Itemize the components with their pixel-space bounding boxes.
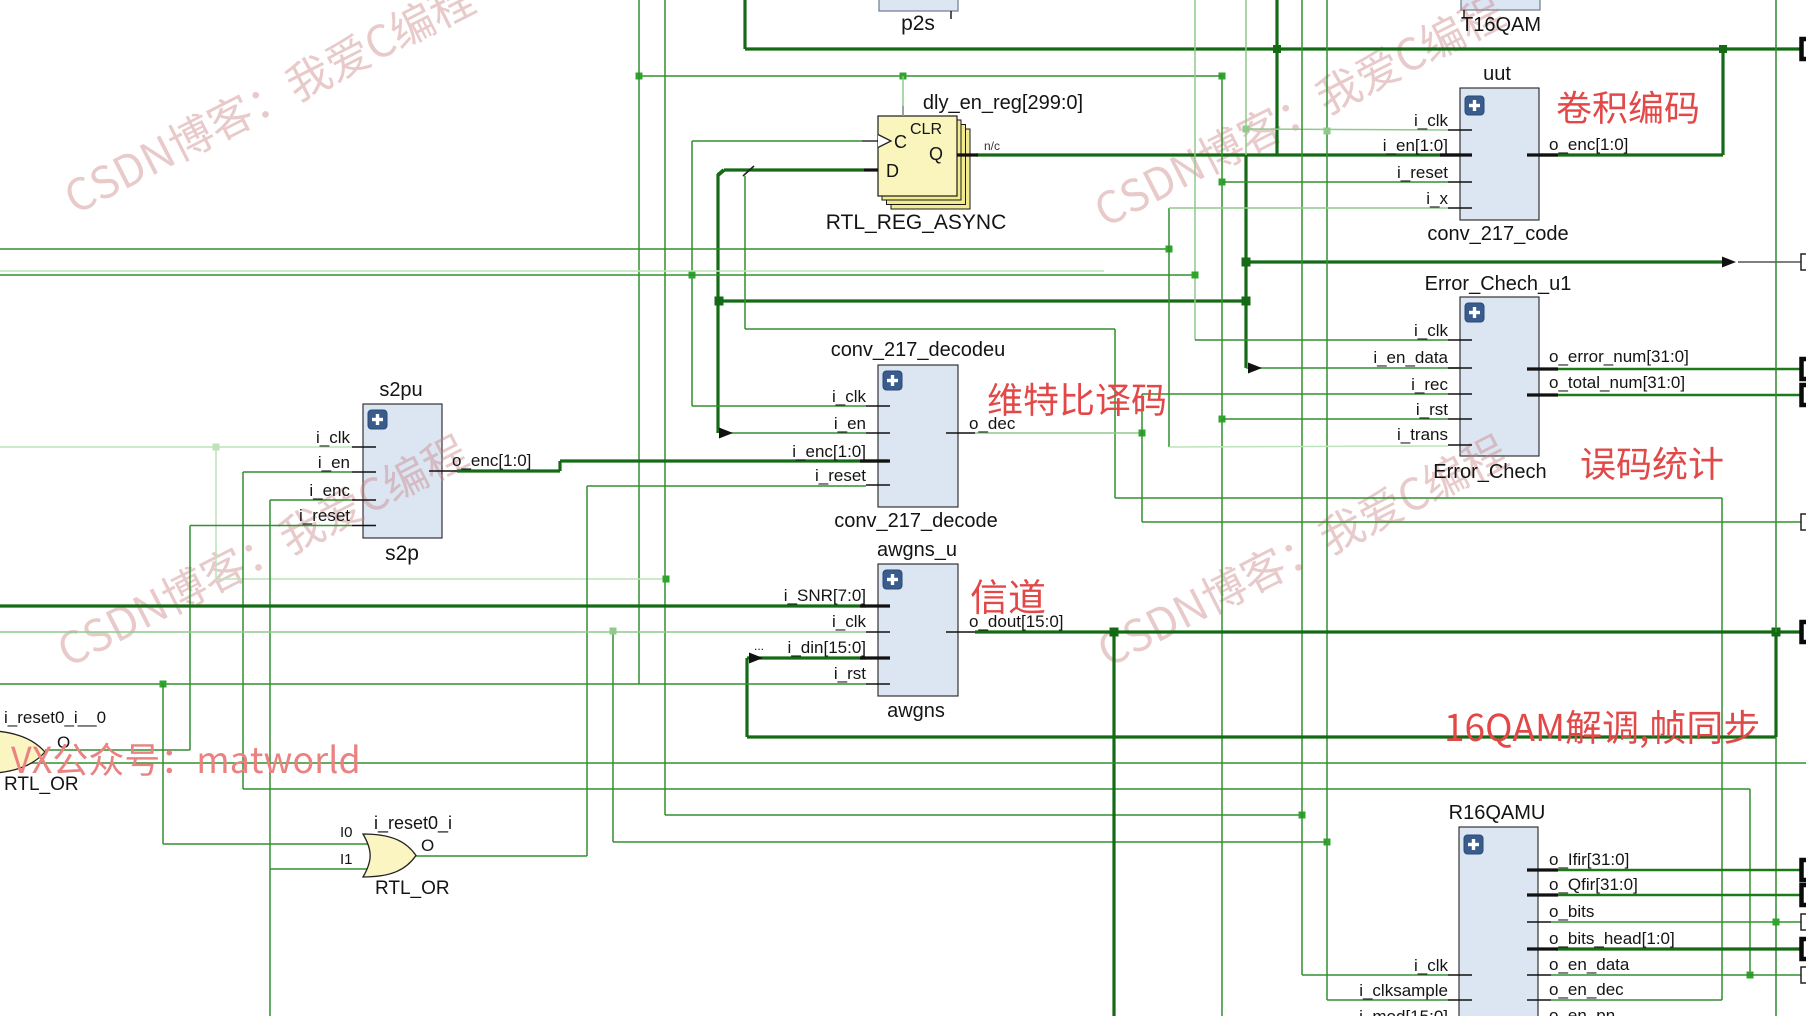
svg-text:CLR: CLR — [910, 121, 942, 138]
svg-text:o_en_dec: o_en_dec — [1549, 980, 1624, 999]
svg-text:awgns: awgns — [887, 700, 945, 722]
junction x1246 y301 — [1242, 297, 1251, 306]
arrow conv i_en — [719, 428, 733, 439]
wire conv i_en riser x718 — [716, 301, 719, 433]
wire o_enc jog x560 — [558, 461, 561, 471]
wire y842 horizontal — [613, 841, 1327, 843]
wire Error i_trans y447 — [1169, 446, 1448, 447]
svg-text:i_clk: i_clk — [1414, 111, 1449, 130]
register C stub — [862, 140, 878, 142]
svg-text:conv_217_decodeu: conv_217_decodeu — [831, 339, 1006, 361]
wire awgns i_rst y684 — [0, 683, 866, 685]
arrow i_din — [749, 653, 763, 664]
uut o_enc stub — [1527, 153, 1558, 156]
junction y76 x639 — [636, 73, 643, 80]
svg-text:n/c: n/c — [984, 139, 1000, 153]
ripper tick on D wire — [743, 166, 754, 176]
svg-text:i_enc: i_enc — [309, 481, 350, 500]
wire x1776 thin lower — [1775, 737, 1777, 1016]
junction x718 y301 — [715, 297, 724, 306]
wire awgns i_clk y632 — [0, 631, 866, 633]
svg-text:I0: I0 — [340, 824, 353, 841]
svg-text:i_clk: i_clk — [316, 428, 351, 447]
svg-text:dly_en_reg[299:0]: dly_en_reg[299:0] — [923, 92, 1083, 114]
wire y271 horizontal — [0, 270, 1104, 272]
R16QAMU o_bits_head stub — [1527, 947, 1558, 950]
port bracket o_en_data — [1801, 967, 1806, 983]
awgns i_din stub — [860, 656, 890, 659]
port bracket o_Ifir — [1802, 860, 1806, 880]
wire x613 vertical — [612, 631, 614, 842]
port bracket o_bits_head — [1802, 939, 1806, 959]
junction x613 y631 — [610, 628, 617, 635]
wire R16QAMU i_clksample y1000 — [1327, 999, 1448, 1001]
wire o_error_num y369 — [1556, 368, 1801, 370]
svg-text:s2pu: s2pu — [379, 379, 422, 401]
junction x1246 y129 — [1243, 126, 1250, 133]
wire x1776 thin upper — [1775, 0, 1777, 632]
junction y579 x666 — [663, 576, 670, 583]
wire uut i_clk y129 — [1246, 129, 1448, 130]
wire x243 vertical — [242, 472, 244, 789]
wire x1169 vertical — [1168, 208, 1170, 447]
junction x1222 y76 — [1219, 73, 1226, 80]
wire y262 tail to port — [1738, 261, 1801, 263]
wire o_dout tail to port — [1776, 630, 1801, 633]
junction y76 x903 — [900, 73, 907, 80]
wire x1114 vertical — [1112, 632, 1115, 1016]
wire s2p i_reset y525 — [190, 525, 352, 527]
awgns i_SNR stub — [860, 604, 890, 607]
or-gate RTL_OR i_reset0_i — [363, 834, 416, 877]
svg-text:D: D — [886, 161, 899, 181]
module s2p body — [363, 404, 442, 538]
svg-text:R16QAMU: R16QAMU — [1449, 802, 1546, 824]
wire o_Ifir y870 — [1556, 869, 1801, 871]
svg-text:o_dec: o_dec — [969, 414, 1016, 433]
wire o_en_dec y1000 — [1551, 999, 1722, 1001]
icon R16QAMU — [1464, 835, 1483, 854]
svg-text:i_rec: i_rec — [1411, 375, 1448, 394]
svg-text:o_dout[15:0]: o_dout[15:0] — [969, 612, 1064, 631]
wire reg Q to uut i_en y155 — [976, 153, 1460, 156]
arrow y262 — [1722, 257, 1736, 268]
svg-text:o_Ifir[31:0]: o_Ifir[31:0] — [1549, 850, 1629, 869]
register top gray stub — [902, 106, 904, 116]
wire Q branch down x1246 thick — [1244, 155, 1247, 368]
wire s2p i_enc y500 — [270, 499, 352, 501]
conv_217_decode input stubs — [866, 405, 890, 407]
svg-text:i_clk: i_clk — [1414, 956, 1449, 975]
wire y815 horizontal — [665, 814, 1302, 816]
R16QAMU o_en stubs — [1527, 974, 1551, 976]
wire s2p i_clk y447 — [0, 446, 352, 448]
svg-text:T16QAM: T16QAM — [1461, 14, 1541, 36]
svg-text:o_total_num[31:0]: o_total_num[31:0] — [1549, 373, 1685, 392]
p2s bottom stub — [950, 11, 952, 19]
wire y301 horizontal — [718, 299, 1246, 302]
svg-text:i_din[15:0]: i_din[15:0] — [788, 638, 866, 657]
junction x1222 y419 — [1219, 416, 1226, 423]
icon uut — [1465, 96, 1484, 115]
wire R16QAMU i_clk y975 — [1302, 974, 1448, 976]
annotation xindao — [971, 579, 1044, 614]
wire y522 horizontal — [1142, 521, 1801, 523]
junction o_dec x1142 — [1139, 430, 1146, 437]
s2p input stubs — [352, 446, 376, 448]
wire o_enc y461 to conv i_enc — [560, 459, 888, 462]
Error o_error_num stub — [1527, 367, 1558, 370]
wire x1195 vertical — [1194, 0, 1196, 340]
port bracket y522 — [1801, 514, 1806, 530]
wire OR2 out y856 — [416, 855, 587, 857]
uut input stubs — [1448, 129, 1472, 131]
wire y789 horizontal — [243, 788, 1750, 790]
module T16QAM (partial) — [1461, 0, 1540, 10]
svg-text:s2p: s2p — [385, 542, 419, 565]
wire conv o_dec y433 — [975, 432, 1142, 434]
port bracket o_dout — [1802, 622, 1806, 642]
svg-text:o_bits_head[1:0]: o_bits_head[1:0] — [1549, 929, 1675, 948]
wire OR1 output y750 — [45, 749, 190, 751]
junction x1327 y131 — [1324, 128, 1331, 135]
svg-text:o_bits: o_bits — [1549, 902, 1594, 921]
wire y262 to output arrow — [1246, 260, 1722, 263]
svg-text:i_en_data: i_en_data — [1373, 348, 1448, 367]
svg-text:o_error_num[31:0]: o_error_num[31:0] — [1549, 347, 1689, 366]
icon s2p — [368, 410, 387, 429]
register clock wedge — [878, 135, 891, 148]
watermark CSDN 3 — [53, 430, 471, 670]
wire o_en_data y975 — [1551, 974, 1801, 976]
junction o_dout x1776 — [1772, 628, 1781, 637]
wire i_SNR y606 — [0, 604, 866, 607]
svg-text:i_rst: i_rst — [834, 664, 866, 683]
wire x1302 vertical — [1301, 0, 1303, 975]
svg-text:conv_217_code: conv_217_code — [1427, 223, 1568, 245]
uut i_en stub — [1440, 153, 1472, 156]
wire x1327 vertical — [1326, 0, 1328, 1000]
watermark CSDN 2 — [1090, 0, 1508, 230]
icon conv_217_decode — [883, 371, 902, 390]
svg-text:i_reset: i_reset — [815, 466, 866, 485]
wire Error i_clk y340 — [1195, 339, 1448, 341]
wire uut o_enc to riser — [1539, 153, 1723, 156]
wire Error i_en_data — [1246, 367, 1460, 369]
port bracket o_total_num — [1802, 385, 1806, 405]
svg-text:i_reset0_i: i_reset0_i — [374, 813, 452, 834]
watermark CSDN 1 — [60, 0, 478, 217]
module awgns body — [878, 564, 958, 696]
wire reg C y141 — [692, 140, 862, 142]
wire x1722 vertical — [1721, 498, 1723, 1000]
register dly_en_reg RTL_REG_ASYNC pages — [891, 129, 970, 209]
conv i_enc stub thick — [860, 459, 890, 462]
wire s2p o_enc y471 — [457, 469, 560, 472]
module conv_217_decode body — [878, 365, 958, 507]
wire y737 horizontal — [747, 735, 1776, 738]
wire p2s-down vertical — [743, 0, 746, 49]
wire uut i_reset y182 — [1222, 181, 1448, 183]
wire s2p i_en y472 — [243, 471, 352, 473]
svg-text:i_rst: i_rst — [1416, 400, 1448, 419]
wire o_enc riser x1723 — [1721, 49, 1724, 155]
Error input stubs — [1448, 339, 1472, 341]
svg-text:conv_217_decode: conv_217_decode — [834, 510, 997, 532]
svg-text:O: O — [421, 836, 434, 855]
wire x1750 vertical — [1749, 789, 1751, 975]
svg-text:i_reset0_i__0: i_reset0_i__0 — [4, 708, 106, 727]
svg-text:o_enc[1:0]: o_enc[1:0] — [452, 451, 531, 470]
T16QAM bottom stub — [1463, 10, 1465, 18]
wire x1222 vertical — [1221, 76, 1223, 1016]
wire reg D corner diag — [718, 170, 724, 175]
wire Error i_rst y419 — [1222, 418, 1448, 420]
svg-text:i_mod[15:0]: i_mod[15:0] — [1359, 1007, 1448, 1016]
svg-text:i_clk: i_clk — [1414, 321, 1449, 340]
junction x1195 y275 — [1192, 272, 1199, 279]
R16QAMU o_bits stub — [1527, 921, 1551, 923]
wire o_dout y632 — [975, 630, 1776, 633]
svg-text:i_en: i_en — [834, 414, 866, 433]
svg-text:i_x: i_x — [1426, 189, 1448, 208]
s2p output stub o_enc — [429, 470, 457, 472]
wire y763 horizontal — [0, 762, 1806, 764]
svg-text:i_en[1:0]: i_en[1:0] — [1383, 136, 1448, 155]
module R16QAMU body — [1459, 827, 1538, 1016]
svg-text:C: C — [894, 132, 907, 152]
svg-text:p2s: p2s — [901, 12, 935, 35]
wire y329 horizontal — [745, 328, 1115, 330]
wire x665 vertical — [664, 0, 666, 815]
annotation wuma tongji — [1582, 447, 1723, 480]
port bracket o_bits — [1801, 914, 1806, 930]
annotation weitebi yima — [988, 383, 1164, 416]
wire y275 horizontal — [0, 274, 1195, 276]
wire OR2 I1 y869 — [270, 868, 368, 870]
svg-text:RTL_OR: RTL_OR — [4, 774, 79, 795]
wire x1776 thick vertical — [1774, 632, 1777, 737]
conv_217_decode o_dec stub — [946, 432, 975, 434]
wire reg D vertical x718 — [716, 174, 719, 301]
icon awgns — [883, 570, 902, 589]
svg-text:i_trans: i_trans — [1397, 425, 1448, 444]
port bracket y262 — [1801, 254, 1806, 270]
module Error_Chech body — [1460, 297, 1539, 456]
svg-text:o_en_pn: o_en_pn — [1549, 1006, 1615, 1016]
wire x747 vertical — [745, 658, 748, 737]
junction x692 y275 — [689, 272, 696, 279]
wire x163 vertical — [162, 684, 164, 844]
svg-text:o_en_data: o_en_data — [1549, 955, 1630, 974]
wire x587 vertical — [586, 486, 588, 856]
junction y249 x1169 — [1166, 246, 1173, 253]
wire reg D horizontal y170 — [724, 168, 864, 171]
junction x1327 y842 — [1324, 839, 1331, 846]
wire dly tap vertical x745 — [744, 176, 746, 329]
svg-text:RTL_REG_ASYNC: RTL_REG_ASYNC — [826, 211, 1007, 234]
svg-text:i_SNR[7:0]: i_SNR[7:0] — [784, 586, 866, 605]
Error o_total_num stub — [1527, 393, 1558, 396]
wire conv i_clk y406 — [692, 405, 866, 407]
junction y447 x216 — [213, 444, 220, 451]
wire x1142 vertical — [1141, 394, 1143, 522]
junction top bus x1723 — [1719, 45, 1727, 53]
wire o_bits_head y949 — [1556, 947, 1801, 950]
svg-text:i_clksample: i_clksample — [1359, 981, 1448, 1000]
R16QAMU o_Qfir stub — [1527, 893, 1558, 896]
junction i_rst x163 — [160, 681, 167, 688]
svg-text:i_reset: i_reset — [299, 506, 350, 525]
wire conv i_reset y486 — [587, 485, 866, 487]
svg-text:i_clk: i_clk — [832, 612, 867, 631]
wire y579 horizontal — [216, 578, 666, 580]
wire x216 vertical — [215, 447, 217, 579]
or-gate RTL_OR i_reset0_i__0 (clipped) — [0, 730, 45, 774]
wire y498 horizontal — [1115, 497, 1722, 499]
junction o_dout x1114 — [1110, 628, 1119, 637]
register D stub — [864, 168, 878, 171]
R16QAMU o_Ifir stub — [1527, 868, 1558, 871]
svg-text:...: ... — [754, 639, 764, 653]
wire o_bits y922 — [1551, 921, 1801, 923]
svg-text:Q: Q — [929, 144, 943, 164]
annotation 16QAM jietiao — [1447, 710, 1758, 748]
wire Error i_rec y394 — [1142, 393, 1448, 395]
wire y249 horizontal — [0, 248, 1169, 250]
wire o_total_num y395 — [1556, 394, 1801, 396]
awgns o_dout stub — [946, 631, 975, 633]
module p2s (partial) — [879, 0, 958, 11]
wire x270 vertical — [269, 500, 271, 1016]
wire o_Qfir y895 — [1556, 894, 1801, 896]
wire conv i_en y433 — [730, 432, 866, 434]
svg-text:i_reset: i_reset — [1397, 163, 1448, 182]
svg-text:i_enc[1:0]: i_enc[1:0] — [792, 442, 866, 461]
wire x1115 vertical — [1114, 329, 1116, 498]
junction o_bits x1776 — [1773, 919, 1780, 926]
wire y76 horizontal — [637, 75, 1222, 77]
junction top bus x1277 — [1273, 45, 1281, 53]
wire awgns i_din y658 — [747, 656, 866, 659]
junction x1222 y182 — [1219, 179, 1226, 186]
junction x1246 y262 — [1242, 258, 1251, 267]
svg-text:RTL_OR: RTL_OR — [375, 878, 450, 899]
wire OR2 I0 y844 — [163, 843, 368, 845]
port bracket o_Qfir — [1802, 885, 1806, 905]
wire i_en vertical x1277 — [1275, 0, 1278, 155]
register Q stub — [957, 153, 978, 156]
wire x1246 light vertical — [1245, 0, 1247, 155]
wire x692 vertical — [691, 141, 693, 406]
port bracket top bus — [1802, 39, 1806, 59]
arrow i_en_data — [1248, 363, 1262, 374]
annotation juanji bianma — [1557, 91, 1698, 124]
wire reg top stub x903 — [902, 76, 904, 116]
wire uut i_x y208 — [1169, 207, 1448, 209]
port bracket o_error_num — [1802, 359, 1806, 379]
svg-text:I1: I1 — [340, 851, 353, 868]
svg-text:o_Qfir[31:0]: o_Qfir[31:0] — [1549, 875, 1638, 894]
svg-text:Error_Chech_u1: Error_Chech_u1 — [1425, 273, 1572, 295]
wire x639 vertical — [638, 0, 640, 684]
icon Error_Chech — [1465, 303, 1484, 322]
junction x1750 y975 — [1747, 972, 1754, 979]
svg-text:Error_Chech: Error_Chech — [1433, 461, 1546, 483]
svg-text:i_en: i_en — [318, 453, 350, 472]
junction y815 x1302 — [1299, 812, 1306, 819]
wire top bus horizontal y49 — [745, 47, 1801, 50]
annotation VX matworld — [11, 743, 357, 776]
R16QAMU input stubs — [1448, 974, 1472, 976]
svg-text:i_clk: i_clk — [832, 387, 867, 406]
svg-text:uut: uut — [1483, 63, 1511, 85]
svg-text:o_enc[1:0]: o_enc[1:0] — [1549, 135, 1628, 154]
module uut body — [1460, 88, 1539, 220]
wire x190 vertical — [189, 526, 191, 751]
watermark CSDN 4 — [1093, 430, 1511, 670]
svg-text:awgns_u: awgns_u — [877, 539, 957, 561]
awgns input stubs — [866, 631, 890, 633]
